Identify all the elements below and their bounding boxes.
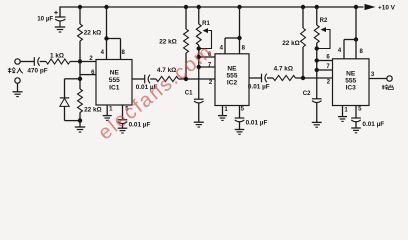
ground IC1 pin5 cap (118, 128, 128, 133)
svg-text:R1: R1 (202, 21, 210, 27)
junction diode tap (78, 77, 82, 81)
svg-text:10 µF: 10 µF (37, 16, 53, 23)
capacitor C1 timing (194, 99, 204, 122)
output terminal (387, 76, 392, 81)
pin label 4 IC3 (338, 48, 342, 54)
node pin2 junction (78, 59, 82, 63)
pin label 7 IC3 (326, 64, 330, 70)
svg-text:4: 4 (338, 48, 342, 54)
wire R1 to IC2 pins 6,7 and C1 (197, 49, 215, 100)
junction R1 wiper (197, 46, 201, 50)
svg-text:2: 2 (209, 80, 213, 86)
capacitor 470 pF input coupling (34, 57, 39, 66)
svg-text:IC2: IC2 (227, 80, 238, 87)
svg-text:555: 555 (109, 77, 120, 84)
svg-text:22 kΩ: 22 kΩ (84, 30, 102, 37)
pin label 5 IC3 (358, 106, 362, 112)
svg-text:22 kΩ: 22 kΩ (159, 39, 177, 46)
resistor 4.7 kΩ coupling 2 (267, 75, 333, 80)
svg-text:22 kΩ: 22 kΩ (282, 40, 300, 47)
svg-text:C1: C1 (185, 91, 193, 97)
svg-text:5: 5 (358, 106, 362, 112)
capacitor 0.01 µF coupling 2 (262, 74, 267, 83)
wire IC3 pin 1 to ground (342, 106, 344, 117)
svg-text:2: 2 (327, 80, 331, 86)
input terminal (15, 59, 20, 64)
svg-text:4.7 kΩ: 4.7 kΩ (274, 66, 293, 73)
pin label 2 IC1 (89, 56, 93, 62)
pin label 6 IC2 (208, 52, 212, 58)
diode clamp (cathode up) (60, 98, 69, 121)
wire pin 6 tap IC1 (80, 74, 96, 76)
ground IC2 pin5 cap (235, 130, 245, 135)
power arrow +10 V (365, 4, 376, 10)
wire IC2 pins 4,8 to rail (225, 5, 242, 54)
ground C2 (312, 122, 322, 127)
junction rail / 22k divider (78, 5, 82, 9)
ground under 10 µF (55, 27, 66, 32)
label 4.7 kΩ coupling 2 (274, 66, 293, 73)
label 输出 (output) (382, 85, 393, 90)
svg-text:IC1: IC1 (109, 84, 120, 91)
capacitor C2 timing (312, 99, 322, 123)
label 输入 (input) (8, 68, 23, 74)
svg-text:3: 3 (371, 72, 375, 78)
pin label 8 IC1 (122, 50, 126, 56)
resistor 22 kΩ upper divider (78, 7, 83, 62)
svg-text:+10 V: +10 V (378, 5, 396, 12)
capacitor 0.01 µF IC2 pin5 (235, 118, 245, 130)
junction diode/resistor to ground (65, 118, 83, 122)
svg-text:C2: C2 (303, 91, 311, 97)
label 0.01 µF coupling 2 (248, 84, 270, 91)
svg-text:NE: NE (346, 71, 356, 78)
svg-text:555: 555 (345, 78, 356, 85)
svg-text:22 kΩ: 22 kΩ (84, 107, 102, 114)
svg-text:555: 555 (226, 73, 237, 80)
label C2 (303, 91, 311, 97)
ground IC3 pin 1 (338, 117, 347, 122)
pin label 1 IC2 (224, 107, 228, 113)
label 470 pF (27, 67, 47, 74)
label R2 (320, 18, 328, 24)
wire IC2 pin 3 output (249, 77, 262, 79)
wire IC3 pins 4,8 to rail (344, 5, 358, 59)
pin label 2 IC3 (327, 80, 331, 86)
label NE 555 IC2 (226, 66, 237, 87)
label 0.01 µF IC1 pin5 (129, 121, 151, 128)
wire IC3 pin 3 to output (369, 78, 387, 80)
pin label 6 IC3 (326, 54, 330, 60)
op-amp/timer U1 NE555 IC1 box (96, 60, 132, 106)
label 0.01 µF coupling 1 (136, 84, 158, 91)
pin label 4 IC1 (101, 50, 105, 56)
svg-text:8: 8 (122, 50, 126, 56)
label 22 kΩ pullup 2 (159, 39, 177, 46)
junction trigger node IC3 (301, 76, 305, 80)
svg-text:6: 6 (326, 54, 330, 60)
svg-text:8: 8 (242, 45, 246, 51)
wire input to coupling cap (20, 61, 34, 63)
label 4.7 kΩ coupling 1 (157, 67, 176, 74)
wire to diode (65, 79, 81, 98)
resistor 22 kΩ pullup IC3 trigger (301, 5, 306, 78)
pin label 5 IC2 (241, 106, 245, 112)
pin label 1 IC1 (109, 107, 113, 113)
pin label 7 IC2 (208, 62, 212, 68)
svg-text:0.01 µF: 0.01 µF (362, 121, 384, 128)
ground stage-1 divider (75, 127, 86, 132)
svg-text:4: 4 (220, 45, 224, 51)
resistor 22 kΩ lower divider (78, 89, 83, 127)
svg-text:4: 4 (101, 50, 105, 56)
capacitor 0.01 µF IC3 pin5 (351, 118, 361, 128)
ground IC2 pin 1 (218, 116, 227, 121)
watermark elecfans.com (94, 40, 217, 144)
pin label 2 IC2 (209, 80, 213, 86)
svg-text:NE: NE (110, 70, 120, 77)
wire IC1 pin 3 output (132, 78, 145, 80)
junction trigger node IC2 (184, 77, 188, 81)
svg-text:1: 1 (344, 108, 348, 114)
pin label 5 IC1 (125, 106, 129, 112)
wire IC2 pin 1 to ground (222, 106, 224, 116)
svg-text:IC3: IC3 (346, 85, 357, 92)
svg-text:8: 8 (360, 49, 364, 55)
label R1 (202, 21, 210, 27)
ground input lower terminal (13, 78, 23, 97)
label 22 kΩ lower (84, 107, 102, 114)
wire IC1 pins 4,8 to rail (104, 5, 120, 60)
capacitor 0.01 µF coupling 1 (145, 75, 150, 84)
label 0.01 µF IC3 pin5 (362, 121, 384, 128)
label 10 µF (37, 16, 53, 23)
capacitor 0.01 µF IC1 pin5 (118, 120, 128, 128)
svg-text:7: 7 (326, 64, 330, 70)
svg-text:1: 1 (224, 107, 228, 113)
svg-text:R2: R2 (320, 18, 328, 24)
svg-text:0.01 µF: 0.01 µF (248, 84, 270, 91)
potentiometer R2 timing (314, 5, 330, 49)
wire node down to pin6 and diode tap (79, 62, 81, 90)
wire IC2 pin 5 (239, 106, 241, 119)
label C1 (185, 91, 193, 97)
junction R2 wiper (315, 46, 319, 50)
wire IC1 pin 5 (122, 105, 124, 120)
wire R2 to IC3 pins 6,7 and C2 (315, 49, 333, 99)
label 22 kΩ pullup 3 (282, 40, 300, 47)
ground C1 (194, 122, 204, 127)
label NE 555 IC1 (109, 70, 120, 92)
wire IC1 pin 1 to ground (106, 105, 108, 116)
label +10 V (378, 5, 396, 12)
pin label 4 IC2 (220, 45, 224, 51)
timer U2 NE555 IC2 box (215, 54, 249, 106)
pin label 8 IC2 (242, 45, 246, 51)
resistor 1 kΩ series (40, 59, 96, 64)
wire +10V top supply rail (60, 7, 364, 17)
label 22 kΩ upper (84, 30, 102, 37)
resistor 22 kΩ pullup IC2 trigger (184, 5, 189, 79)
svg-text:5: 5 (241, 106, 245, 112)
pin label 3 IC3 (371, 72, 375, 78)
pin label 1 IC3 (344, 108, 348, 114)
potentiometer R1 timing (196, 5, 211, 49)
ground IC1 pin 1 (103, 116, 112, 121)
svg-text:470 pF: 470 pF (27, 67, 47, 74)
capacitor 10 µF polarized with + sign (54, 11, 65, 27)
timer U3 NE555 IC3 box (333, 59, 370, 106)
pin label 6 IC1 (91, 70, 95, 76)
label NE 555 IC3 (345, 71, 356, 92)
ground IC3 pin5 cap (351, 128, 361, 133)
label 0.01 µF IC2 pin5 (246, 120, 268, 127)
svg-text:1 kΩ: 1 kΩ (50, 53, 64, 60)
pin label 8 IC3 (360, 49, 364, 55)
resistor 4.7 kΩ coupling 1 (150, 76, 215, 81)
svg-text:0.01 µF: 0.01 µF (246, 120, 268, 127)
label 1 kΩ (50, 53, 64, 60)
wire IC3 pin 5 (355, 106, 357, 119)
